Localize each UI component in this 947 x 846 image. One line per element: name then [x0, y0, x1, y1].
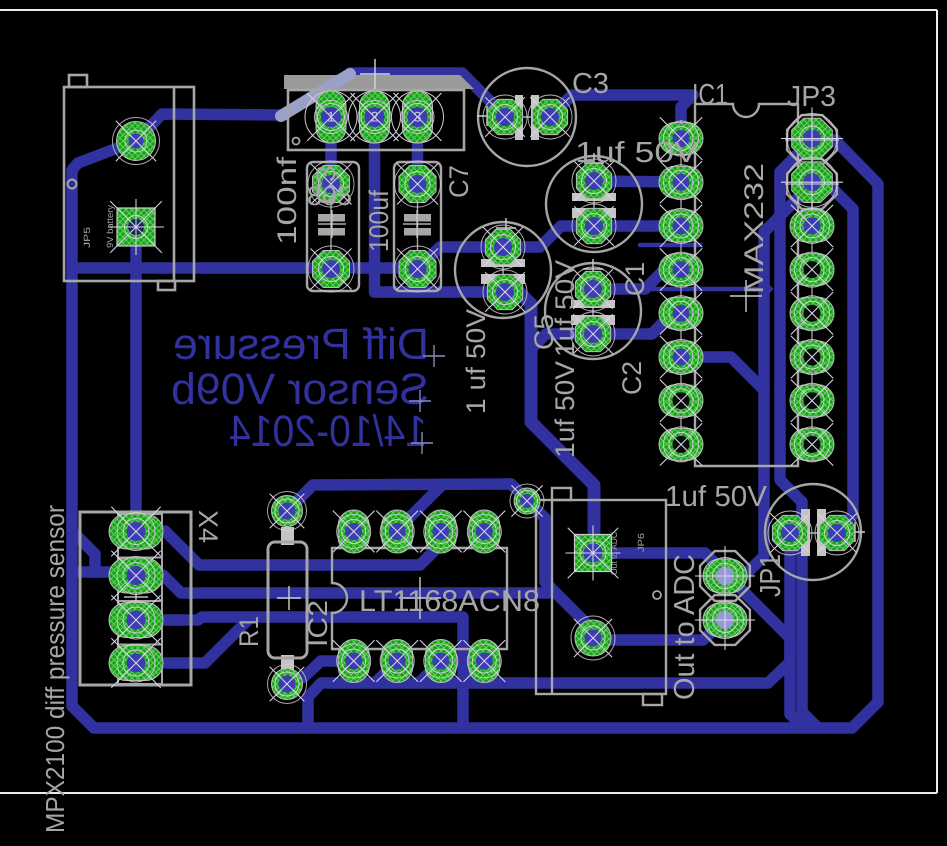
- pad C2e.bottom: [571, 312, 615, 356]
- header JP1 octagon outlines: [700, 551, 750, 601]
- pad C6cap.1: [395, 161, 441, 207]
- via: [510, 484, 544, 518]
- capacitor C6 100nf body: [394, 162, 441, 291]
- svg-text:C7: C7: [444, 165, 474, 198]
- pad JP3col.8: [790, 423, 834, 465]
- silk pin line IC1 left column: [680, 120, 682, 462]
- pad IC1.2: [659, 161, 703, 203]
- svg-text:1uf 50V: 1uf 50V: [550, 361, 580, 458]
- svg-text:C1: C1: [620, 262, 650, 296]
- pad IC2 bottom.3: [420, 640, 462, 683]
- wire R1.top via JP6 round pad: [287, 484, 593, 638]
- connector X4 body: [80, 512, 191, 685]
- wire JP5.1 to X2.1: [136, 114, 283, 141]
- wire under connector body (pale): [281, 74, 350, 116]
- wire X4.2 to junction: [136, 575, 548, 593]
- svg-text:1: 1: [327, 109, 335, 125]
- board frame bottom: [0, 792, 937, 794]
- svg-text:MAX232: MAX232: [739, 163, 769, 294]
- svg-text:JP1: JP1: [755, 554, 787, 597]
- wire C2e.bottom to IC1.5: [593, 313, 681, 334]
- pad IC1.5: [659, 292, 703, 334]
- wire thin signal 1: [640, 243, 700, 248]
- capacitor C2e body (electrolytic): [545, 263, 641, 359]
- pad JP3.2: [781, 151, 843, 213]
- pad X4.3: [109, 595, 163, 644]
- svg-text:1uf 50V: 1uf 50V: [575, 137, 699, 169]
- pad X4.2: [109, 551, 163, 600]
- pad C4.right: [815, 511, 859, 555]
- svg-text:805: 805: [307, 181, 352, 211]
- svg-text:IC1: IC1: [692, 79, 728, 111]
- pad IC2 top.2: [376, 510, 418, 553]
- svg-text:100uf: 100uf: [364, 190, 394, 252]
- wire JP5.2 to X4.1: [130, 227, 142, 531]
- wire inner bottom bus: [308, 662, 790, 726]
- capacitor C5 100nf body: [307, 162, 359, 291]
- svg-text:LT1168ACN8: LT1168ACN8: [359, 585, 540, 618]
- pad IC1.4: [659, 248, 703, 290]
- origin cross IC1: [730, 295, 762, 297]
- silk pin line JP3 column: [811, 120, 813, 462]
- text origin crosses: [423, 355, 445, 357]
- pad JP3col.6: [790, 336, 834, 378]
- pad IC2 bottom.1: [333, 640, 375, 683]
- pad X4.1: [109, 507, 163, 556]
- wire JP6 square pad right to C4 net: [600, 553, 790, 658]
- pad C1e.top: [572, 159, 616, 203]
- wire X2.1 to C3cap.1: [325, 117, 337, 184]
- wire JP6 round pad to JP1.2: [594, 620, 725, 640]
- pad X2.1: [305, 91, 357, 143]
- pad JP6.square: [566, 526, 621, 581]
- wire junction to C7.2: [76, 262, 418, 274]
- wire along connector top to C3.left: [350, 73, 505, 116]
- resistor R1 body: [281, 527, 294, 545]
- svg-text:JP6: JP6: [636, 533, 646, 552]
- pad C2e.top: [571, 267, 615, 311]
- wire JP3.1 left down to loop: [780, 140, 816, 726]
- wire C2e.top to IC1.4: [593, 269, 681, 289]
- pad JP3.1: [781, 108, 843, 170]
- pad cross JP3.1: [785, 139, 839, 141]
- pad cross JP3.2: [785, 183, 839, 185]
- pad IC2 bottom.2: [376, 640, 418, 683]
- pad IC2 top.3: [420, 510, 462, 553]
- pad R1.1: [268, 492, 307, 531]
- svg-text:JP3: JP3: [787, 81, 836, 113]
- wire IC1.6 right to JP3 net: [681, 357, 764, 390]
- pad C1e.bottom: [572, 204, 616, 248]
- pad C5e.bottom: [483, 270, 527, 314]
- wire X4.3 bus down to loop: [136, 617, 463, 726]
- wire branch to IC2 pad2: [399, 485, 442, 528]
- wire X4.1 to IC2 pad3: [136, 531, 441, 565]
- pad X2.3: [392, 91, 444, 143]
- pad X4.4: [109, 638, 163, 687]
- pad IC1.8: [659, 423, 703, 465]
- svg-text:1uf 50V: 1uf 50V: [550, 260, 580, 357]
- svg-text:IC2: IC2: [303, 600, 333, 647]
- pad R1.2: [268, 665, 307, 704]
- capacitor C3 body (electrolytic, horizontal): [478, 68, 576, 166]
- pad JP3col.4: [790, 248, 834, 290]
- svg-text:100nf: 100nf: [272, 156, 302, 245]
- svg-text:C2: C2: [617, 361, 647, 395]
- pad JP3col.3: [790, 205, 834, 247]
- board frame top: [0, 9, 937, 11]
- wire C2e.bottom merge junction: [534, 334, 593, 346]
- pad JP1.1: [695, 546, 755, 606]
- pad IC2 top.1: [333, 510, 375, 553]
- wire C5e.bottom to JP6 square pad: [505, 292, 594, 545]
- pad C4.left: [768, 511, 812, 555]
- svg-text:JP5: JP5: [82, 227, 92, 248]
- svg-text:Out to ADC: Out to ADC: [609, 532, 619, 575]
- board frame right: [936, 10, 938, 793]
- pad C3.right: [528, 95, 572, 139]
- IC2 LT1168ACN8 body: [332, 548, 507, 649]
- svg-text:9V battery: 9V battery: [105, 204, 115, 248]
- wire thin signal 2: [643, 287, 766, 292]
- pad JP5.1: [113, 118, 160, 165]
- pad C5cap.1: [308, 161, 354, 207]
- svg-text:2: 2: [371, 109, 379, 125]
- wire loop diag to X4.2: [72, 531, 95, 570]
- pad C3.left: [483, 95, 527, 139]
- wire C4.left down to loop: [790, 533, 802, 726]
- pad IC1.3: [659, 205, 703, 247]
- wire JP3.1 stub right: [812, 134, 836, 146]
- wire X4.4 join bus: [136, 617, 251, 663]
- junction diamond: [762, 283, 773, 294]
- pad C5cap.2: [308, 246, 354, 292]
- pad JP5.2: [108, 199, 164, 255]
- pad C6cap.2: [395, 246, 441, 292]
- connector JP5 9V battery outline: [64, 75, 194, 290]
- wire X2.2 down to C5.bottom: [375, 117, 504, 292]
- svg-text:R1: R1: [234, 616, 264, 647]
- svg-text:14/10-2014: 14/10-2014: [229, 407, 427, 456]
- wire C5e.top to C1e.bottom: [505, 226, 594, 247]
- pad JP1.2: [695, 590, 755, 650]
- pad IC1.7: [659, 380, 703, 422]
- svg-text:1 uf 50V: 1 uf 50V: [461, 309, 491, 414]
- pad X2.2: [349, 91, 401, 143]
- wire R1.bottom to IC2.5: [287, 661, 353, 684]
- svg-text:X4: X4: [193, 510, 223, 543]
- capacitor C4 body (electrolytic right): [765, 484, 861, 580]
- wire C3.right to IC1.1: [550, 95, 693, 138]
- svg-text:Out to ADC: Out to ADC: [669, 554, 701, 700]
- pad IC1.1: [659, 117, 703, 159]
- svg-text:3: 3: [414, 109, 422, 125]
- wire IC2.8 stub: [463, 661, 484, 682]
- capacitor C5e body (electrolytic 1 uf 50V): [455, 222, 551, 318]
- pad JP6.round: [571, 616, 615, 660]
- wire GND outer loop JP5.1 to JP3.1: [72, 140, 878, 728]
- wire C1e.top to IC1.2: [594, 181, 681, 182]
- wire C7.2 to C5e.top: [418, 247, 503, 269]
- pad JP3col.5: [790, 292, 834, 334]
- wire IC2.6 stub: [376, 661, 397, 682]
- header JP3 octagon outlines: [787, 115, 837, 165]
- pad IC1.6: [659, 336, 703, 378]
- svg-text:C3: C3: [572, 68, 609, 100]
- wire JP3.2 left down to JP1.1: [727, 184, 812, 575]
- svg-text:1uf 50V: 1uf 50V: [665, 481, 768, 513]
- svg-text:MPX2100 diff pressure sensor: MPX2100 diff pressure sensor: [40, 505, 70, 833]
- IC1 MAX232 body: [695, 104, 798, 466]
- pad C5e.top: [481, 225, 525, 269]
- svg-text:Diff Pressure: Diff Pressure: [173, 320, 429, 369]
- pad JP3col.7: [790, 380, 834, 422]
- pad IC2 bottom.4: [463, 640, 505, 683]
- capacitor C1e body (electrolytic 1uf 50V): [546, 156, 642, 252]
- wire C1e.bottom to IC1.3: [594, 220, 681, 232]
- wire IC2.7 stub: [420, 661, 441, 682]
- origin cross IC2: [399, 597, 441, 599]
- origin cross X2: [360, 73, 390, 75]
- wire loop to X4.2: [72, 566, 109, 578]
- wire JP3.2 right to C4.right: [812, 184, 853, 531]
- wire X2.3 to C7.1: [412, 117, 424, 184]
- pad IC2 top.4: [463, 510, 505, 553]
- connector JP6 Out-to-ADC body: [536, 488, 666, 705]
- connector X2 body (gray bar): [284, 75, 474, 89]
